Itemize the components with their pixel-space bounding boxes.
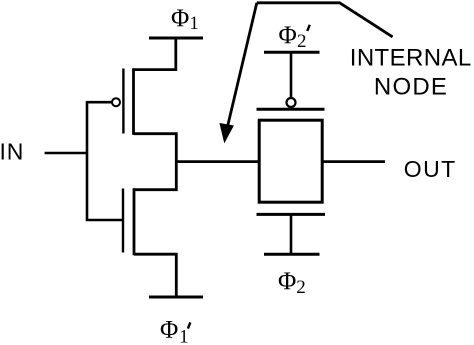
callout arrow shaft to internal node [228,3,257,126]
transistor Q1 gate [122,69,124,134]
PHI2' terminal bar [264,51,320,54]
transistor Q2 source lead (to PHI1' rail) [134,254,176,297]
svg-text:Φ: Φ [171,5,189,32]
svg-text:INTERNAL: INTERNAL [350,45,472,72]
PHI2' lead wire [290,52,293,97]
svg-text:1: 1 [190,14,199,34]
Q1 drain / Q2 drain junction (internal node vertical) [134,134,177,190]
wire from input bus to Q1 gate bubble [87,102,123,220]
svg-text:Φ: Φ [279,22,297,49]
wire IN [45,152,87,155]
clock rail PHI1 (top bar) [149,37,203,40]
transmission gate U1 body (box) [259,120,322,202]
PHI2 lead wire [290,214,293,254]
transmission gate bottom gate bar (NMOS side) [257,213,326,216]
svg-text:2: 2 [297,31,307,52]
transistor Q1 channel [132,68,135,135]
svg-text:Φ: Φ [160,316,178,343]
wire internal node to transmission gate [176,160,260,163]
callout arrowhead [219,123,234,143]
transistor Q1 source lead (to PHI1 rail) [134,38,176,70]
transistor Q1 gate bubble (PMOS) [112,98,120,106]
svg-text:IN: IN [0,139,24,165]
transmission gate top gate bar (PMOS side) [257,108,325,111]
PHI2 terminal bar [264,253,320,256]
transmission gate bubble [287,98,296,107]
svg-text:2: 2 [296,277,306,298]
wire OUT [322,160,385,163]
svg-text:Φ: Φ [278,268,296,295]
svg-text:1: 1 [179,328,188,345]
svg-text:NODE: NODE [374,73,448,100]
transistor Q2 gate (NMOS) [122,189,124,253]
clock rail PHI1' (bottom bar) [149,296,203,299]
svg-text:OUT: OUT [404,156,457,182]
callout leader from INTERNAL NODE label [257,3,393,37]
transistor Q2 channel [133,188,136,255]
